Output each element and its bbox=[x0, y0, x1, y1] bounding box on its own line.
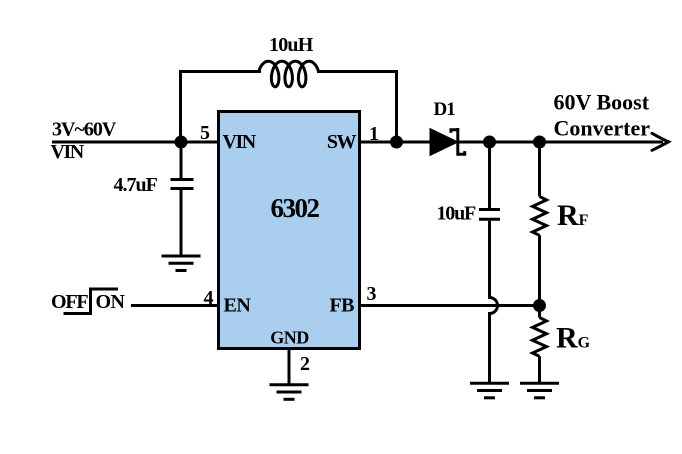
svg-text:Converter: Converter bbox=[554, 116, 651, 141]
svg-text:VIN: VIN bbox=[51, 141, 85, 163]
wire input VIN to pin 5 bbox=[52, 141, 219, 144]
svg-text:VIN: VIN bbox=[223, 131, 257, 153]
svg-text:60V Boost: 60V Boost bbox=[554, 90, 650, 115]
arrowhead output bbox=[652, 133, 669, 150]
wire RG to ground bbox=[538, 356, 541, 383]
ground under GND pin bbox=[270, 385, 309, 400]
svg-text:ON: ON bbox=[96, 291, 126, 313]
diode D1 schottky cathode bar bbox=[456, 128, 459, 156]
wire diode node down to cap 10uF bbox=[488, 142, 491, 208]
ground under RG bbox=[520, 383, 559, 398]
ground under 4.7uF bbox=[162, 256, 201, 271]
node dot VIN junction bbox=[175, 136, 188, 149]
svg-text:D1: D1 bbox=[434, 99, 456, 120]
diode D1 schottky hooks bbox=[451, 130, 465, 155]
svg-text:4: 4 bbox=[204, 287, 214, 309]
wire cap 4.7uF to ground bbox=[180, 190, 183, 257]
wire junction up-left to inductor bbox=[181, 72, 262, 143]
node dot diode output bbox=[483, 136, 496, 149]
svg-text:SW: SW bbox=[327, 131, 357, 153]
svg-text:RF: RF bbox=[557, 199, 589, 232]
wire EN input bbox=[131, 304, 219, 307]
resistor RF bbox=[533, 197, 547, 236]
svg-text:2: 2 bbox=[300, 353, 310, 375]
wire GND pin to ground bbox=[288, 348, 291, 385]
node dot FB/RG bbox=[533, 299, 546, 312]
inductor L1 10uH bbox=[259, 61, 319, 87]
wire junction down to cap 4.7uF bbox=[180, 142, 183, 178]
wire diode cathode to output arrow bbox=[459, 141, 663, 144]
svg-text:3: 3 bbox=[367, 283, 377, 305]
diode D1 triangle bbox=[430, 129, 458, 156]
capacitor C2 10uF plates bbox=[479, 208, 500, 211]
wire SW pin to diode anode bbox=[360, 141, 432, 144]
svg-text:1: 1 bbox=[369, 123, 379, 145]
svg-text:4.7uF: 4.7uF bbox=[114, 174, 158, 196]
resistor RG bbox=[533, 318, 547, 357]
wire output node down to RF bbox=[538, 142, 541, 197]
svg-text:5: 5 bbox=[200, 122, 210, 144]
svg-text:10uF: 10uF bbox=[437, 203, 477, 225]
svg-text:10uH: 10uH bbox=[269, 34, 314, 56]
OFF/ON step signal symbol bbox=[64, 289, 119, 314]
wire inductor to SW node bbox=[317, 72, 397, 143]
node dot SW junction bbox=[390, 136, 403, 149]
capacitor C1 4.7uF plates bbox=[171, 178, 194, 181]
svg-text:3V~60V: 3V~60V bbox=[52, 119, 117, 141]
svg-text:EN: EN bbox=[224, 295, 252, 317]
svg-text:RG: RG bbox=[556, 322, 591, 355]
wire cap 10uF down with hop over FB wire bbox=[490, 221, 498, 384]
svg-text:6302: 6302 bbox=[271, 193, 320, 223]
wire RF to FB node bbox=[538, 235, 541, 305]
wire FB node down to RG bbox=[538, 306, 541, 318]
svg-text:FB: FB bbox=[329, 295, 354, 317]
svg-text:OFF: OFF bbox=[51, 291, 88, 313]
wire FB pin to node bbox=[360, 304, 540, 307]
svg-text:GND: GND bbox=[270, 328, 309, 348]
IC U1 6302 body bbox=[219, 112, 360, 349]
ground under 10uF bbox=[470, 383, 509, 398]
node dot output/RF bbox=[533, 136, 546, 149]
